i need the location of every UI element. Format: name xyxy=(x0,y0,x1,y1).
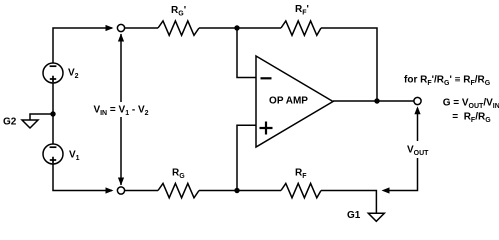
node top input terminal xyxy=(117,24,124,31)
op-amp plus symbol xyxy=(260,122,273,135)
svg-text:RF': RF' xyxy=(295,4,309,17)
op-amp minus symbol xyxy=(261,77,272,79)
svg-text:VOUT: VOUT xyxy=(407,145,429,158)
arrowhead VOUT return left xyxy=(382,187,390,193)
wire op-amp output xyxy=(333,100,414,102)
wire VIN arrow lower shaft xyxy=(120,117,122,185)
wire RF to G1 corner xyxy=(321,191,376,214)
wire RF' to output corner xyxy=(321,28,377,101)
source V1 circle xyxy=(43,144,63,164)
wire node B to RF xyxy=(237,190,281,192)
resistor RF xyxy=(281,183,321,197)
arrowhead into bottom node xyxy=(106,187,114,193)
svg-text:RG: RG xyxy=(172,168,185,181)
wire left rail middle segment xyxy=(52,83,54,144)
svg-text:RG': RG' xyxy=(171,5,186,18)
ground G1 symbol xyxy=(368,213,384,221)
wire RG' to node A xyxy=(199,27,237,29)
node bottom input terminal xyxy=(117,187,124,194)
wire G2 stub xyxy=(30,114,53,120)
op-amp U1 body xyxy=(256,56,333,147)
wire left rail bottom segment xyxy=(53,164,112,191)
wire left rail top segment xyxy=(53,28,112,63)
source V2 minus xyxy=(50,65,57,67)
svg-text:for RF'/RG' ≡ RF/RG: for RF'/RG' ≡ RF/RG xyxy=(404,75,491,88)
junction node A xyxy=(234,25,239,30)
svg-text:V2: V2 xyxy=(68,68,79,81)
wire VOUT arrow shaft upper xyxy=(417,108,419,141)
svg-text:VIN = V1 - V2: VIN = V1 - V2 xyxy=(93,105,148,118)
arrowhead into top node xyxy=(106,25,114,31)
source V1 plus xyxy=(50,157,56,163)
wire node A to RF' xyxy=(237,27,281,29)
node output terminal xyxy=(414,97,421,104)
wire inverting input xyxy=(237,28,256,78)
source V2 plus xyxy=(50,76,56,82)
wire non-inverting input xyxy=(237,125,256,190)
wire VOUT return path xyxy=(384,158,418,191)
svg-text:RF: RF xyxy=(295,168,307,181)
wire top rail node to RG' xyxy=(125,27,158,29)
svg-text:= RF/RG: = RF/RG xyxy=(452,112,491,125)
junction G2 tap xyxy=(50,111,55,116)
arrowhead VOUT up xyxy=(414,106,420,114)
resistor RG' xyxy=(158,21,199,35)
svg-text:G1: G1 xyxy=(347,210,361,221)
svg-text:V1: V1 xyxy=(69,150,80,163)
arrowhead VIN down xyxy=(118,178,124,186)
ground G2 symbol xyxy=(22,120,38,128)
junction output node xyxy=(374,98,379,103)
wire VIN arrow upper shaft xyxy=(120,34,122,102)
arrowhead VIN up xyxy=(118,34,124,42)
svg-text:OP AMP: OP AMP xyxy=(269,96,308,107)
source V1 minus xyxy=(50,146,57,148)
source V2 circle xyxy=(43,63,63,83)
resistor RG xyxy=(158,183,199,197)
wire RG to node B xyxy=(199,190,237,192)
svg-text:G2: G2 xyxy=(3,117,17,128)
junction node B xyxy=(234,188,239,193)
wire bottom rail node to RG xyxy=(125,190,158,192)
svg-text:G = VOUT/VIN: G = VOUT/VIN xyxy=(443,98,499,111)
resistor RF' xyxy=(281,21,321,35)
